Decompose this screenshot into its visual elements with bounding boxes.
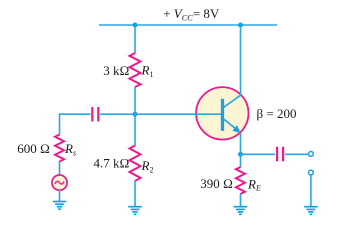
ground under output	[304, 207, 318, 215]
source Vs circle	[52, 175, 67, 190]
transistor base bar	[221, 99, 224, 131]
wire emitter node to C2	[241, 153, 276, 155]
node emitter junction	[238, 152, 243, 157]
svg-text:R1: R1	[141, 63, 154, 79]
svg-text:R2: R2	[141, 158, 154, 174]
wire collector vertical	[240, 25, 242, 96]
ground under source	[53, 202, 67, 210]
wire base node to R2	[134, 114, 136, 146]
transistor collector lead	[223, 95, 241, 108]
resistor Rs	[55, 135, 64, 162]
svg-text:3 kΩ: 3 kΩ	[103, 63, 129, 78]
ground under R2	[128, 207, 142, 215]
capacitor C1 input coupling	[92, 107, 98, 122]
wire top rail VCC	[99, 24, 277, 26]
transistor Q1 body circle	[196, 87, 248, 139]
svg-text:+ VCC= 8V: + VCC= 8V	[163, 6, 220, 23]
wire C1 to base node	[100, 113, 135, 115]
transistor emitter lead	[223, 119, 236, 129]
svg-text:390 Ω: 390 Ω	[200, 176, 233, 191]
resistor R1	[130, 53, 141, 87]
output terminal upper	[309, 152, 314, 157]
wire R1 bottom to base node	[134, 87, 136, 115]
wire Rs to source	[59, 161, 61, 176]
wire source to ground	[59, 190, 61, 202]
resistor RE	[236, 167, 245, 194]
output terminal lower	[309, 170, 314, 175]
wire input horizontal left of C1	[60, 113, 91, 115]
wire input drop to Rs	[59, 113, 61, 134]
resistor R2	[130, 146, 141, 182]
wire R1 top lead	[134, 25, 136, 54]
source sine symbol	[55, 181, 64, 184]
node junction rail-collector	[238, 23, 243, 28]
emitter arrowhead	[233, 125, 241, 133]
wire emitter vertical to node	[240, 133, 242, 154]
wire emitter node to RE	[240, 154, 242, 167]
wire RE to ground	[240, 194, 242, 207]
svg-text:β = 200: β = 200	[257, 106, 297, 121]
svg-text:Rs: Rs	[64, 141, 76, 157]
ground under RE	[234, 207, 248, 215]
svg-text:4.7 kΩ: 4.7 kΩ	[94, 156, 130, 171]
node junction rail-R1	[133, 23, 138, 28]
wire lower terminal to ground	[310, 175, 312, 207]
svg-text:RE: RE	[247, 176, 261, 192]
svg-text:600 Ω: 600 Ω	[17, 141, 50, 156]
capacitor C2 output coupling	[277, 147, 283, 162]
wire base node to transistor base	[135, 113, 222, 115]
node base junction	[133, 112, 138, 117]
wire R2 bottom to ground	[134, 181, 136, 207]
wire C2 to output terminal	[285, 153, 308, 155]
